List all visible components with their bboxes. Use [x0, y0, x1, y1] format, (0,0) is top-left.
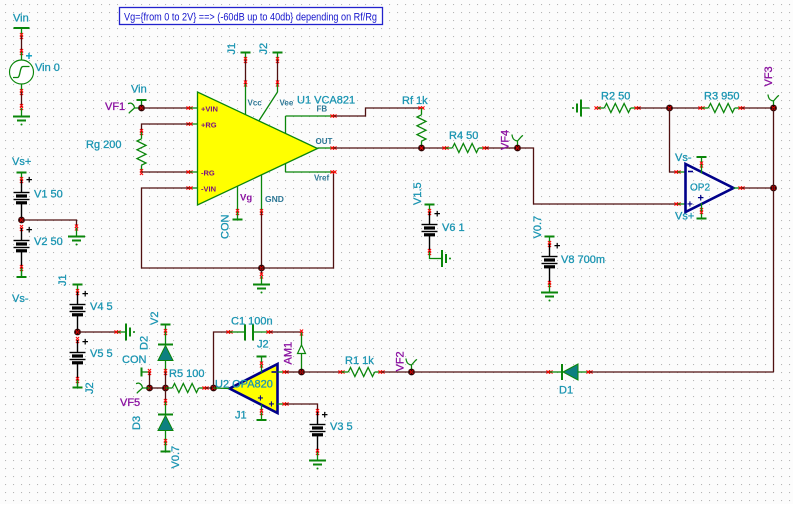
- wire R4 to VF4 node: [486, 147, 518, 149]
- wire D2 to node: [165, 372, 167, 388]
- svg-text:Vin: Vin: [13, 13, 29, 25]
- svg-text:VF5: VF5: [120, 397, 140, 409]
- node Vs- below V2: [12, 268, 29, 305]
- svg-text:+RG: +RG: [201, 121, 217, 130]
- svg-text:FB: FB: [317, 105, 328, 114]
- diode D2: [139, 332, 174, 375]
- battery V1 50: [14, 175, 63, 224]
- wire node to OP2 - input: [670, 108, 686, 174]
- wire from Vin node to source VG1 plus terminal: [20, 36, 23, 55]
- svg-text:+: +: [269, 400, 275, 411]
- right vertical wire VF3 to D1: [773, 108, 775, 372]
- svg-text:V1.5: V1.5: [412, 182, 424, 205]
- resistor R1 1k: [342, 355, 385, 377]
- svg-text:R5 100: R5 100: [169, 368, 204, 380]
- U2 output lead: [214, 387, 230, 390]
- svg-text:-VIN: -VIN: [201, 185, 216, 194]
- svg-text:V0.7: V0.7: [532, 216, 544, 239]
- wire J2 to U1 Vee pin: [276, 60, 279, 87]
- svg-text:Vref: Vref: [314, 174, 329, 183]
- input terminal V0.7 below D3: [161, 442, 183, 469]
- jumper J2 above U2: [257, 339, 269, 373]
- wire Rg bottom to U1 -RG: [140, 169, 198, 175]
- resistor R2 50: [595, 91, 641, 113]
- U1 pin Vcc: [246, 84, 263, 115]
- svg-text:Vin: Vin: [131, 84, 147, 96]
- svg-text:AM1: AM1: [283, 342, 295, 365]
- svg-text:+: +: [322, 410, 328, 422]
- svg-text:R4 50: R4 50: [449, 130, 478, 142]
- battery V4 5: [70, 289, 113, 336]
- svg-text:+: +: [554, 241, 560, 253]
- svg-text:CON: CON: [220, 215, 232, 240]
- input terminal V0.7 for battery V8: [532, 216, 555, 247]
- wire V4/V5 midpoint to ground: [78, 330, 121, 333]
- svg-text:Vg={from 0 to 2V} ==> (-60dB u: Vg={from 0 to 2V} ==> (-60dB up to 40db}…: [124, 12, 377, 24]
- svg-text:GND: GND: [265, 194, 284, 204]
- battery V3 5: [310, 410, 353, 456]
- formula text box: [120, 8, 383, 25]
- svg-text:V0.7: V0.7: [170, 446, 182, 469]
- svg-text:+: +: [26, 49, 33, 63]
- wire C1 to AM1 branch: [270, 330, 304, 336]
- svg-text:V1 50: V1 50: [34, 189, 63, 201]
- ground left of R2: [572, 100, 590, 117]
- svg-text:D2: D2: [139, 336, 151, 350]
- resistor R5 100: [166, 368, 209, 393]
- svg-text:+: +: [258, 394, 264, 405]
- bottom rail to Vref: [262, 172, 334, 268]
- svg-text:+: +: [82, 337, 88, 349]
- jumper J1 (Vcc supply): [226, 43, 251, 63]
- svg-text:CON: CON: [122, 354, 147, 366]
- svg-text:VF1: VF1: [105, 101, 125, 113]
- svg-text:J2: J2: [257, 339, 269, 351]
- svg-text:+: +: [26, 175, 32, 187]
- battery V5 5: [70, 337, 113, 384]
- svg-text:V3 5: V3 5: [330, 421, 353, 433]
- wire VF2 node to D1: [412, 370, 553, 373]
- svg-text:V8 700m: V8 700m: [561, 254, 605, 266]
- node J1 with battery V4: [57, 274, 83, 295]
- ground at bottom rail: [253, 268, 270, 294]
- op-amp U2 OPA820 body: [215, 364, 278, 413]
- wire V1/V2 midpoint to ground: [22, 220, 79, 231]
- resistor R3 950: [702, 91, 745, 113]
- ground below V8: [541, 284, 558, 302]
- svg-text:Vin 0: Vin 0: [35, 62, 60, 74]
- svg-text:Rf 1k: Rf 1k: [402, 95, 428, 107]
- svg-text:+VIN: +VIN: [201, 105, 218, 114]
- svg-text:R1 1k: R1 1k: [345, 355, 374, 367]
- jumper J1 below U2: [235, 405, 267, 422]
- jumper J2 (Vee supply): [258, 43, 283, 63]
- wire C1 left branch: [214, 330, 233, 388]
- wire from source to ground: [20, 92, 23, 110]
- wire node to D3: [164, 388, 167, 405]
- ammeter AM1: [283, 333, 306, 376]
- wire AM1 node to R1: [302, 370, 345, 373]
- svg-text:Rg 200: Rg 200: [86, 139, 121, 151]
- U2 - input wire to AM1 node: [278, 370, 302, 373]
- OP2 Vs+ supply terminal: [675, 203, 707, 223]
- svg-text:V6 1: V6 1: [442, 222, 465, 234]
- svg-text:+: +: [698, 193, 704, 205]
- svg-text:VF4: VF4: [500, 130, 512, 150]
- U1 pin Vg with CON input terminal: [220, 186, 253, 239]
- voltage probe VF2: [395, 351, 417, 375]
- diode D3: [131, 402, 173, 445]
- voltage probe VF1: [105, 101, 145, 113]
- voltage probe VF5: [120, 383, 150, 409]
- svg-text:Vcc: Vcc: [248, 99, 263, 108]
- U2 + input wire to V3: [278, 402, 320, 415]
- input terminal V1.5 for battery V6: [412, 182, 435, 215]
- svg-text:J2: J2: [84, 382, 96, 394]
- wire U1 -VIN to bottom rail: [142, 186, 262, 268]
- wire U1 GND to bottom rail: [258, 212, 265, 271]
- node J2 below V5: [73, 380, 97, 394]
- battery V8 700m: [542, 241, 606, 288]
- svg-text:VF3: VF3: [763, 66, 775, 86]
- ground below V3: [309, 452, 326, 470]
- node Vs+ with battery V1: [12, 156, 31, 183]
- svg-text:Vs-: Vs-: [12, 293, 29, 305]
- svg-text:J1: J1: [226, 43, 238, 55]
- svg-text:J1: J1: [235, 410, 247, 422]
- OP2 Vs- supply terminal: [675, 152, 707, 174]
- U1 pin GND: [260, 175, 284, 215]
- wire VF5 node to D2 D3 node: [150, 385, 169, 392]
- svg-text:R2 50: R2 50: [601, 91, 630, 103]
- svg-text:D1: D1: [559, 385, 573, 397]
- U1 pin Vref: [286, 163, 337, 182]
- wire: Vin source top node stub: [13, 13, 30, 40]
- voltage generator Vin 0 (VG1): [10, 49, 60, 95]
- wire R1 to VF2 node: [382, 371, 412, 373]
- wire U1 +RG to Rg top: [140, 122, 198, 135]
- U1 pin FB: [286, 105, 337, 134]
- op-amp U1 VCA821 body: [198, 92, 356, 205]
- resistor R4 50: [446, 130, 489, 153]
- U1 pin OUT: [316, 137, 337, 150]
- svg-text:D3: D3: [131, 416, 143, 430]
- svg-text:Vee: Vee: [280, 99, 294, 108]
- wire J1 to U1 Vcc pin: [244, 60, 247, 87]
- voltage probe VF3: [763, 66, 779, 111]
- svg-text:J2: J2: [258, 43, 270, 55]
- ground at V1 V2 midpoint: [68, 228, 85, 246]
- svg-text:+: +: [82, 289, 88, 301]
- svg-text:R3 950: R3 950: [704, 91, 739, 103]
- svg-text:Vg: Vg: [240, 193, 252, 204]
- U1 pin Vee: [259, 84, 294, 121]
- svg-text:+: +: [687, 200, 693, 211]
- svg-text:V4 5: V4 5: [90, 301, 113, 313]
- voltage probe VF4: [500, 130, 523, 152]
- diode D1: [550, 364, 593, 397]
- svg-text:Vs+: Vs+: [675, 211, 694, 223]
- wire R2 to R3 node: [638, 105, 705, 112]
- OP2 output wire: [734, 185, 777, 192]
- resistor Rf 1k: [402, 95, 428, 148]
- wire R3 to VF3 node: [742, 107, 774, 109]
- battery V6 1: [422, 209, 465, 256]
- svg-text:VF2: VF2: [395, 351, 407, 371]
- svg-text:V2 50: V2 50: [34, 236, 63, 248]
- svg-text:OUT: OUT: [316, 137, 333, 146]
- capacitor C1 100n: [230, 316, 273, 341]
- svg-text:+: +: [434, 209, 440, 221]
- wire R5 to U2 output node: [206, 385, 217, 392]
- ground below Vin source: [13, 108, 30, 126]
- node Vin at VF1: [131, 84, 147, 108]
- wire FB to Rf top: [334, 106, 425, 116]
- svg-text:Vs-: Vs-: [675, 152, 692, 164]
- wire VF1 node to U1 +VIN: [142, 106, 198, 109]
- resistor Rg 200: [86, 132, 146, 172]
- svg-text:V2: V2: [149, 312, 161, 325]
- svg-text:C1 100n: C1 100n: [231, 316, 273, 328]
- wire OUT to R4: [334, 145, 449, 152]
- svg-text:J1: J1: [57, 274, 69, 286]
- svg-text:-RG: -RG: [201, 169, 215, 178]
- ground right of V4 V5: [118, 324, 136, 341]
- wire VF4 node to OP2 + input: [518, 148, 686, 206]
- svg-text:Vs+: Vs+: [12, 156, 31, 168]
- input terminal CON lower: [122, 354, 151, 377]
- svg-text:V5 5: V5 5: [90, 348, 113, 360]
- svg-text:+: +: [26, 225, 32, 237]
- wire CON to VF5 node: [146, 372, 153, 391]
- ground right of V6: [430, 250, 452, 267]
- input terminal V2 above D2: [149, 312, 171, 335]
- op-amp OP2 body: [686, 164, 734, 212]
- battery V2 50: [14, 225, 63, 272]
- wire D1 to right vertical rail: [590, 371, 774, 373]
